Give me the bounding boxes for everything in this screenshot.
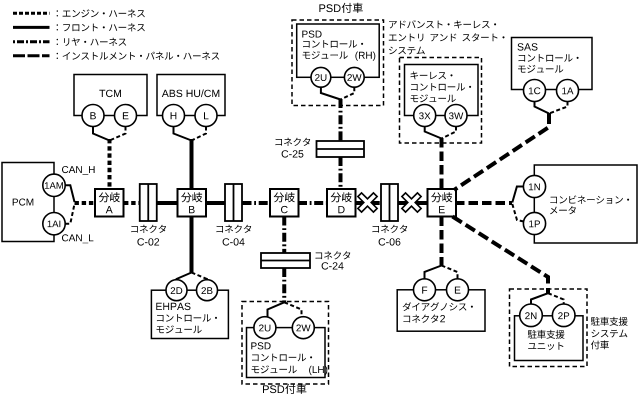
wire branch E down to diagnosis connector (instrument panel harness) [440, 217, 444, 266]
wire parking pin 2P branch (dashed) [548, 293, 564, 304]
wire keyless pin 3X branch [425, 127, 442, 139]
pin L of ABS [195, 105, 217, 127]
node branch B [178, 189, 207, 217]
wire keyless drop to branch E (instrument panel harness) [440, 138, 444, 189]
pin 1AM of PCM [43, 174, 65, 196]
pin 3X of keyless module [414, 105, 436, 127]
wire TCM drop to branch A (engine harness) [108, 139, 112, 189]
module parking assist unit box [515, 316, 584, 361]
module diagnosis connector 2 box [397, 290, 485, 331]
wire meter pin 1P branch (dashed) [512, 204, 524, 222]
pin 2B of EHPAS [197, 280, 218, 301]
legend engine harness label [57, 9, 145, 17]
wire EHPAS pin 2B branch (dashed) [192, 273, 208, 281]
wire SAS pin 1C branch [535, 102, 550, 114]
label combination meter [550, 195, 629, 214]
pin 2W of PSD LH [292, 317, 314, 339]
module TCM box [74, 75, 147, 116]
label PSD fitted vehicles (top) [319, 3, 362, 13]
enclosure parking assist dashed box [510, 289, 588, 367]
legend front harness line [13, 26, 50, 29]
label CAN_L [62, 234, 93, 243]
wire diagnosis pin F branch [425, 266, 442, 280]
wire PSD RH pin 2U branch [321, 87, 341, 99]
wire branch E diagonal to parking assist unit (instrument panel harness) [453, 217, 549, 295]
twisted pair symbol X right of C-06 [396, 187, 427, 218]
legend rear harness line [13, 40, 50, 43]
label connector C-06 [372, 225, 407, 233]
wire ABS drop to branch B (front harness) [190, 139, 194, 189]
label PSD control module RH [302, 31, 375, 61]
label SAS control module [518, 43, 579, 73]
pin B of TCM [82, 105, 104, 127]
label TCM [99, 90, 121, 97]
wire PCM pin 1AI branch (CAN_L, dashed) [65, 204, 74, 224]
wire EHPAS pin 2D branch [177, 273, 192, 281]
legend engine harness line [13, 12, 50, 15]
wire connector C-25 to branch D (rear harness) [339, 157, 343, 189]
legend instrument panel harness label [57, 52, 220, 60]
wire connector C-04 to branch C (rear harness) [243, 201, 271, 205]
wire PSD LH pin 2U branch [268, 302, 285, 317]
pin 2W of PSD RH [344, 67, 364, 87]
pin 1AI of PCM [43, 213, 65, 235]
label CAN_H [62, 166, 95, 175]
pin E of diagnosis connector [447, 279, 469, 301]
label connector C-24 [316, 251, 351, 259]
pin 1C of SAS [524, 80, 546, 102]
wire branch B down to EHPAS (front harness) [190, 217, 194, 273]
label keyless control module [411, 71, 472, 102]
pin 2U of PSD LH [254, 317, 276, 339]
wire branch A to connector C-02 (engine harness) [124, 201, 140, 205]
label EHPAS control module [156, 303, 217, 334]
module ABS HU/CM box [157, 75, 225, 116]
enclosure PSD LH dashed box [242, 302, 329, 385]
pin E of TCM [115, 105, 137, 127]
module PCM box [2, 163, 54, 242]
enclosure keyless dashed box [400, 58, 482, 144]
wire PSD LH pin 2W branch (dashed) [284, 302, 301, 317]
label diagnosis connector 2 [403, 302, 473, 323]
legend instrument panel harness line [13, 54, 50, 57]
wire branch C down to connector C-24 (engine harness) [282, 217, 286, 254]
wire connector C-02 to branch B (front harness) [157, 201, 179, 205]
wire branch B to connector C-04 (front harness) [206, 201, 225, 205]
wire ABS pin L branch (dashed) [192, 127, 207, 141]
pin 2P of parking assist unit [552, 304, 575, 327]
pin 1A of SAS [557, 80, 579, 102]
label parking assist system fitted vehicles [591, 317, 628, 349]
pin 1P of combination meter [523, 212, 545, 234]
enclosure PSD RH dashed box [292, 20, 384, 106]
wire connector C-24 to PSD LH (rear harness) [282, 268, 286, 303]
pin 2N of parking assist unit [520, 304, 543, 327]
wire parking pin 2N branch [531, 293, 548, 304]
wire SAS pin 1A branch (dashed) [549, 102, 568, 114]
wire PCM to branch A (engine harness) [75, 201, 96, 205]
pin 2U of PSD RH [311, 67, 331, 87]
wire ABS pin H branch [174, 127, 192, 141]
node branch C [270, 189, 299, 217]
label PSD fitted vehicles (bottom) [263, 384, 306, 394]
connector C-24 symbol [261, 253, 310, 268]
wire keyless pin 3W branch (dashed) [442, 127, 457, 139]
twisted pair symbol X left of C-06 [352, 187, 383, 218]
module keyless control module box [405, 65, 479, 116]
pin H of ABS [163, 105, 185, 127]
connector C-04 symbol [225, 184, 242, 221]
legend rear harness label [57, 38, 127, 46]
wire meter pin 1N branch [512, 187, 523, 203]
module combination meter box [534, 165, 637, 243]
pin 3W of keyless module [445, 105, 467, 127]
label PSD control module LH [251, 342, 327, 375]
label advanced keyless entry and start system [389, 20, 505, 54]
module EHPAS control module box [151, 290, 228, 338]
connector C-25 symbol [317, 141, 365, 157]
label ABS HU/CM [162, 89, 220, 97]
pin F of diagnosis connector [414, 279, 436, 301]
wire TCM pin E branch (dashed) [110, 127, 126, 141]
legend front harness label [57, 23, 145, 31]
label PCM [13, 199, 34, 206]
label connector C-02 [131, 225, 166, 233]
connector C-02 symbol [140, 184, 157, 221]
node branch A [95, 189, 124, 217]
wire TCM pin B branch [93, 127, 110, 141]
wire branch C to branch D (rear harness) [298, 201, 328, 205]
node branch D [327, 189, 356, 217]
label connector C-04 [216, 225, 251, 233]
node branch E [428, 189, 457, 217]
module PSD control module RH box [297, 24, 380, 77]
module SAS control module box [512, 38, 593, 90]
wire PSD RH drop to connector C-25 (rear harness) [339, 99, 343, 141]
wire branch E to combination meter (instrument panel harness) [455, 201, 512, 205]
wire diagnosis pin E branch (dashed) [442, 266, 458, 280]
pin 2D of EHPAS [166, 280, 187, 301]
label parking assist unit [528, 330, 565, 350]
wire PCM pin 1AM branch (CAN_H) [65, 185, 74, 202]
wire branch D to connector C-06 (rear harness) [355, 201, 382, 205]
label connector C-25 [275, 138, 310, 146]
wire PSD RH pin 2W branch (dashed) [341, 87, 355, 99]
wire SAS diagonal to branch E (instrument panel harness) [454, 113, 549, 190]
connector C-06 symbol [381, 184, 398, 221]
module PSD control module LH box [247, 328, 326, 378]
wire connector C-06 to branch E (front harness) [398, 201, 428, 205]
pin 1N of combination meter [523, 175, 545, 197]
